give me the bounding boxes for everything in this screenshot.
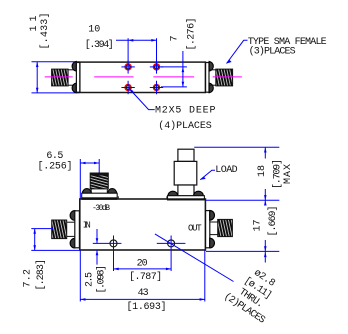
svg-text:7: 7: [170, 35, 181, 41]
leader: hole dia: [155, 234, 234, 282]
dim 17 dimension line: [264, 200, 266, 205]
svg-text:[.256]: [.256]: [38, 161, 73, 173]
dim 17 outside stub below: [264, 251, 266, 262]
connector J1 left SMA (top view): [52, 61, 80, 92]
svg-text:[.709]: [.709]: [272, 159, 284, 189]
svg-text:20: 20: [137, 259, 148, 270]
body (bottom view): [80, 199, 206, 250]
hole A2: [153, 64, 159, 70]
top edge ticks: [117, 196, 119, 199]
svg-text:10: 10: [88, 25, 100, 36]
svg-text:OUT: OUT: [188, 224, 202, 234]
hole B2: [153, 84, 159, 90]
neck: [68, 69, 76, 71]
dim 7 extension lines: [161, 66, 187, 68]
nut wings: [72, 61, 76, 71]
dim 43 dimension line: [80, 298, 205, 300]
svg-text:11: 11: [29, 16, 40, 32]
svg-text:[.394]: [.394]: [85, 39, 114, 51]
dim 7.2 extension lines: [31, 228, 53, 230]
svg-text:LOAD: LOAD: [215, 165, 238, 176]
leader: M2X5: [129, 88, 155, 109]
svg-text:[.283]: [.283]: [35, 259, 47, 291]
holes M2X5 (4 places, top view): [125, 64, 160, 91]
dim 17 extension line (body bottom): [206, 250, 279, 252]
wire: dim 11 dimension line: [36, 62, 38, 93]
connector coupled port (vertical SMA bottom view): [82, 173, 118, 200]
connector J2 right SMA (top view): [206, 61, 233, 92]
svg-text:(3)PLACES: (3)PLACES: [249, 46, 296, 58]
dim 6.5 extension lines: [79, 159, 81, 199]
svg-text:-30dB: -30dB: [92, 204, 110, 213]
svg-text:[.787]: [.787]: [129, 271, 162, 283]
cap plate: [76, 63, 79, 93]
leader: LOAD: [200, 170, 215, 180]
neck: [209, 69, 216, 71]
leader: TYPE SMA FEMALE: [227, 40, 248, 63]
hole B1: [125, 84, 131, 90]
svg-text:2.5: 2.5: [85, 272, 96, 287]
svg-text:MAX: MAX: [283, 164, 294, 184]
load (vertical, bottom view): [168, 149, 205, 200]
connector IN (left SMA bottom view): [52, 211, 80, 248]
dim 2.5 dimension lines: [96, 229, 98, 243]
svg-text:IN: IN: [83, 221, 91, 231]
dim 20 dimension line: [114, 268, 172, 270]
svg-text:43: 43: [138, 288, 149, 299]
crosshairs for holes: [121, 60, 163, 94]
crosshairs: [93, 236, 186, 272]
dim 17/18 extension line (body top): [206, 199, 279, 201]
dim 10 dimension line: [116, 39, 157, 41]
svg-text:[.098]: [.098]: [96, 265, 108, 294]
holes thru (2 places, bottom view): [110, 240, 117, 247]
label: dia 2.8 thru rotated: [221, 261, 286, 326]
centerline (top view magenta): [45, 76, 73, 78]
svg-text:7.2: 7.2: [23, 269, 34, 288]
body (top view): [80, 62, 206, 92]
svg-text:[.276]: [.276]: [186, 18, 198, 51]
svg-text:[1.693]: [1.693]: [127, 301, 167, 313]
svg-text:(4)PLACES: (4)PLACES: [158, 120, 212, 132]
threads: [216, 69, 233, 86]
wire: dim 11 top extension line: [32, 61, 80, 63]
svg-text:6.5: 6.5: [46, 151, 63, 162]
svg-text:[.669]: [.669]: [267, 206, 279, 237]
dim 7 dimension line: [182, 51, 184, 87]
dim 43 extension lines: [79, 250, 81, 301]
dim 18 extension line (load top): [194, 146, 279, 148]
svg-text:[.433]: [.433]: [39, 13, 51, 50]
connector OUT (right SMA bottom view): [206, 210, 233, 248]
svg-text:M2X5 DEEP: M2X5 DEEP: [155, 106, 216, 117]
nut wings: [209, 61, 213, 71]
cap plate: [206, 63, 209, 93]
threads: [52, 69, 69, 86]
svg-text:17: 17: [253, 220, 264, 232]
wire: dim 11 bottom extension line: [32, 92, 80, 94]
svg-text:18: 18: [257, 165, 268, 177]
hole A1: [125, 64, 131, 70]
dim 10 extension lines: [127, 38, 129, 62]
dim 18 dimension line: [264, 147, 266, 158]
dim 6.5 dimension line: [80, 162, 99, 164]
dim 7.2 dimension line: [34, 229, 36, 251]
